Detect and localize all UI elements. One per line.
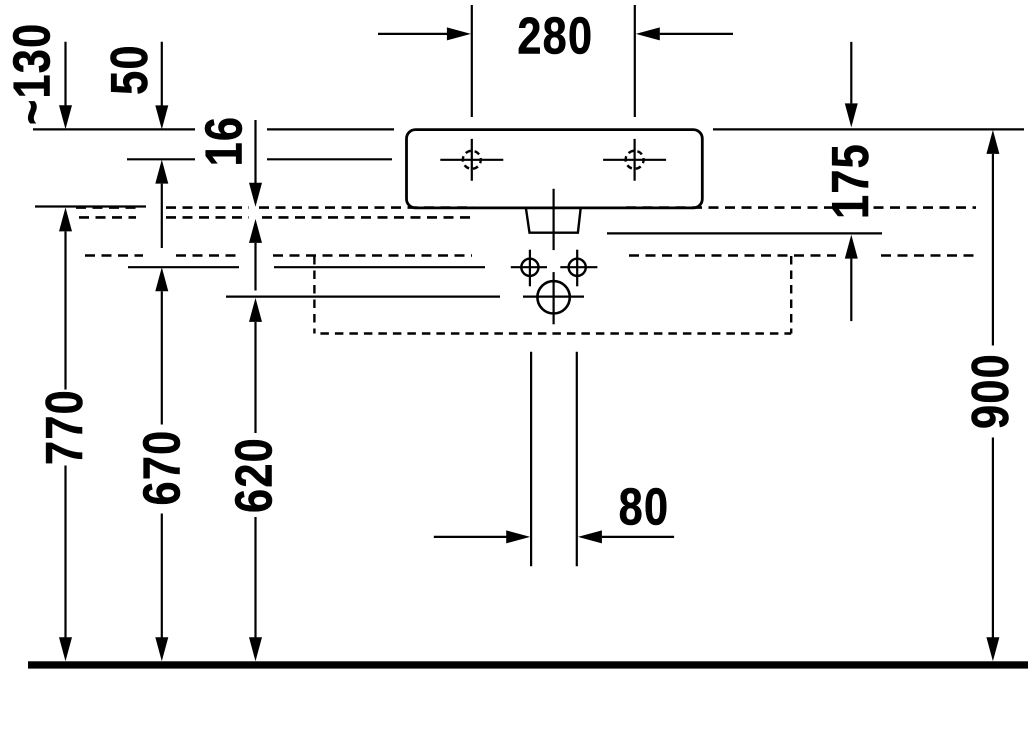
dimension 16 lower arrow with tail: [249, 219, 262, 291]
670 level line left segment: [128, 266, 239, 268]
dimension 900 upper arrow: [986, 130, 999, 346]
right tap hole dashed circle: [626, 151, 644, 169]
drain pipe right line: [576, 352, 578, 567]
drain pipe left line: [530, 352, 532, 567]
dimension 770 upper arrow: [59, 207, 72, 389]
fixing hole horizontal line right: [560, 266, 597, 268]
svg-text:~130: ~130: [4, 23, 61, 125]
670 level line middle segment: [274, 266, 485, 268]
dimension 175 lower arrow with tail: [845, 235, 858, 322]
drain circle: [537, 281, 569, 313]
tap-hole level extension line (right piece): [267, 158, 392, 160]
hidden outline rectangle left edge: [313, 256, 315, 334]
right fixing hole circle: [569, 259, 586, 276]
siphon 175 level line: [607, 232, 882, 234]
svg-text:175: 175: [823, 143, 880, 219]
fixing hole horizontal line left: [511, 266, 547, 268]
dimension 16 upper line with down arrow: [249, 120, 262, 207]
dimension 900 lower line with arrow: [986, 438, 999, 662]
drain outlet trapezoid: [526, 208, 581, 233]
left tap hole dashed circle: [463, 151, 481, 169]
hidden mounting line B (lower dashed): [79, 216, 474, 219]
extension line at 770 level: [35, 205, 146, 207]
dimension 50 lower arrow with tail: [155, 160, 168, 248]
dimension 620 upper arrow: [249, 298, 262, 433]
vertical centre line through drain circle: [552, 272, 554, 324]
vertical centre line upper segment: [552, 189, 554, 250]
floor line: [28, 661, 1028, 668]
hidden outline rectangle right edge: [790, 256, 792, 334]
svg-text:620: 620: [226, 437, 283, 513]
svg-text:280: 280: [517, 8, 593, 65]
dimension 175 upper line with down arrow: [845, 42, 858, 128]
svg-text:50: 50: [102, 44, 159, 95]
washbasin body outline: [407, 130, 703, 208]
left fixing hole circle: [521, 259, 538, 276]
hidden outline rectangle bottom edge: [314, 332, 791, 334]
dimension 280 extension line left: [471, 5, 473, 117]
dimension 620 lower line with arrow: [249, 517, 262, 661]
hidden mounting line A (upper dashed): [76, 206, 976, 209]
dimension ~130 line with down arrow: [59, 42, 72, 130]
dimension 280 extension line right: [634, 5, 636, 117]
dimension 280 line right with arrow: [636, 27, 733, 40]
svg-text:16: 16: [196, 116, 253, 167]
left fixing hole vertical line: [529, 250, 531, 287]
right fixing hole vertical line: [576, 250, 578, 287]
left tap hole centre cross: [440, 139, 503, 181]
dimension 50 line with down arrow: [155, 42, 168, 130]
hidden line C at fixing-bolt level: [85, 254, 975, 257]
wall/rim reference line (top level, right of 16 label): [267, 128, 394, 130]
svg-text:670: 670: [134, 430, 191, 506]
620 level line left segment: [226, 296, 500, 298]
wall/rim reference line (top level, right of basin): [713, 128, 1024, 130]
tap-hole level extension line (left piece): [127, 158, 195, 160]
dimension 280 line left with arrow: [378, 27, 471, 40]
svg-text:900: 900: [963, 353, 1020, 429]
dimension 770 lower line with arrow: [59, 466, 72, 662]
right tap hole centre cross: [603, 139, 666, 181]
620 level line through drain circle: [523, 296, 584, 298]
dimension 670 lower line with arrow: [155, 514, 168, 662]
wall/rim reference line (top level, left of 16 label): [33, 128, 195, 130]
svg-text:80: 80: [619, 479, 670, 536]
dimension 80 line left with arrow: [434, 530, 530, 543]
dimension 670 upper arrow: [155, 267, 168, 424]
svg-text:770: 770: [37, 389, 94, 465]
dimension 80 line right with arrow: [578, 530, 674, 543]
